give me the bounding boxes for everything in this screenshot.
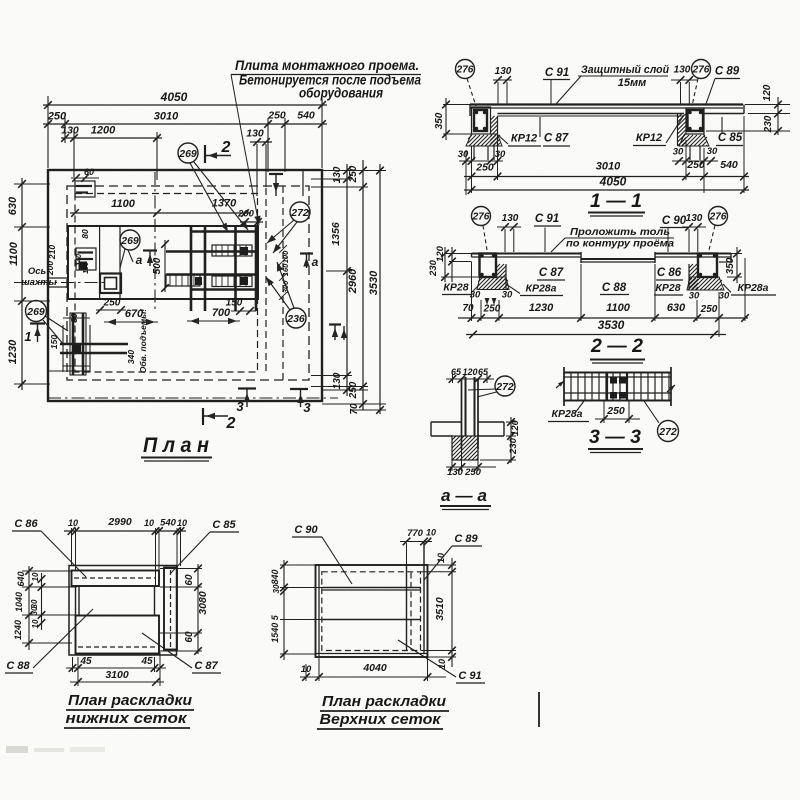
plan: dashed opening contour A [67,186,309,380]
plan callout circle 269 left [26,301,47,322]
lower mesh plan: mesh C85 right strip [164,568,177,650]
plan dim: 200 inner [240,221,263,223]
plan: shaft axis dash-dot horizontal [14,282,108,284]
section 1-1: slab top chords [470,103,743,105]
lower mesh plan: opening slot [72,585,160,587]
plan right extension lines [322,170,386,172]
upper mesh plan: right dim chain 10/3510/10 [451,558,453,667]
section 1-1: dim 4050 [464,189,749,191]
plan dim: 700 [187,320,240,322]
section 2-2: hatched base under right column [687,277,724,290]
section 1-1: hatch left of right column [678,114,682,118]
section 2-2: dim 130 right [682,226,706,228]
section 1-1: dims 30 right [672,160,718,162]
section 2-2: dim 3530 [466,334,726,336]
section a-a: dim 120/230 right [506,421,516,423]
section a-a: bottom dims 130/250 [446,466,496,468]
plan dim chain left: 630 / 1100 / 1230 [21,178,23,390]
lower mesh plan: outer rectangle [69,566,177,656]
section 1-1: dim 130 right [671,79,697,81]
plan section mark a right-mid [300,252,313,254]
section 1-1: dim 120/230 right [745,104,790,106]
plan dim chain right: 130 / 1356 / 130 [346,164,348,396]
plan dim chain right: 3530 [379,164,381,414]
upper mesh plan: bottom dim 10/4040 [300,676,446,678]
section 1-1: dims 30 left [459,160,503,162]
section 2-2: dim 350 right [721,253,742,255]
plan dim: 250 / 3010 / 250 / 540 [64,118,66,143]
plan section marks 3 top [269,173,283,175]
section 1-1: callout circle 276 left [456,60,475,79]
lower mesh plan: bottom dims 45/45 and 3100 [66,667,166,669]
plan dim: 1100 / 1370 inner [70,212,251,214]
section a-a: hatched base [452,436,478,460]
plan dim: 130 / 1200 [73,132,75,177]
section 1-1: hatched base under right column [679,134,709,146]
plan: dashed opening contour B [75,194,258,373]
section 1-1: hatch right of left column [491,116,495,120]
plan: outer wall rectangle [48,170,322,401]
plan: mesh ladder detail 1 [212,245,252,256]
plan dim: 500 vertical inner [164,240,166,292]
lower mesh plan: left dim chains [28,566,30,650]
section 3-3: anchor squares [610,377,617,384]
plan callout circle 272 [290,202,310,222]
plan section mark 1 left [30,322,45,324]
section 2-2: slab right segment [655,253,731,255]
plan: thick rebar verticals group 2 [234,227,237,311]
section 1-1: slab right overhang bottom [704,113,744,115]
section 1-1: dim 350 left [443,104,470,106]
section 3-3: left break arrows [556,381,564,388]
plan section mark 2 bottom [202,408,204,425]
plan dim: 150 [231,310,256,312]
plan: dim 60 over top-left detail [71,177,99,179]
plan callout circle 269 top [178,143,198,163]
section 2-2: slab left segment [472,253,582,255]
plan dim: 130 right small [250,141,272,143]
section 2-2: left column rebar cage [480,254,497,278]
section 2-2: dim 120/230 left [446,253,472,255]
section 2-2: hatch left of right column [689,264,693,268]
section a-a: slab lines [431,421,462,423]
section 1-1: right column with rebar cage [686,108,704,134]
plan: centre dash-dot vertical axis [154,172,156,312]
faint scan ghosts bottom left [6,746,28,753]
upper mesh plan: outer rectangle [316,565,428,657]
paper noise overlay [0,0,1,1]
plan section marks 3 bottom [238,387,256,389]
plan section mark 2 top [204,145,206,163]
plan section mark 1 right-low [329,323,341,325]
plan dim: overall 4050 [47,96,49,168]
section 2-2: slab middle segment C88 [580,252,582,263]
section 1-1: dim 130 left [493,79,512,81]
upper mesh plan: opening slot lines [323,587,422,589]
lower mesh plan: top dim line 10/2990/10/540/10 [64,530,186,532]
section 2-2: dim 130 left [497,226,521,228]
plan dim chain right: 250 / 2960 / 250 / 70 [362,160,364,410]
plan: small rebar detail top-left [75,181,95,197]
plan dim: 250 inner left [96,309,126,311]
section 2-2: callout circle 276 left [472,207,491,226]
section 1-1: dim line 3010/250/540 [464,176,749,178]
plan: lower-left rebar cage [72,313,75,375]
plan: mesh ladder detail 3 [212,276,252,287]
section 3-3: mesh band [564,372,671,374]
plan section mark a centre [143,249,157,251]
section a-a: callout circle 272 [495,376,515,396]
section a-a: wall verticals [461,379,463,449]
plan: anchor plate squares [195,277,202,285]
stray scan mark vertical line [538,692,540,727]
plan callout circle 269 centre [120,230,140,250]
lower mesh plan: mesh C86 top band [72,571,160,587]
lower mesh plan: right dim chain 60/3080/60 [197,564,199,654]
plan: thick rebar verticals group 1 [190,227,193,311]
section 1-1: callout circle 276 right [692,60,711,79]
plan: mesh ladder detail 2 [166,275,200,286]
plan callout circle 236 [286,308,306,328]
upper mesh plan: right strip C89 [406,566,408,651]
plan: central opening band [68,226,258,299]
plan dim: 670 [104,321,158,323]
section 3-3: callout circle 272 [658,421,679,442]
section 2-2: bottom dim chain [458,317,748,319]
section 1-1: hatched base under left column [466,134,502,146]
plan: bottom dash-dot line [48,397,338,399]
plan: dashed vertical right strip [282,186,284,380]
upper mesh plan: inner dashed contour [322,572,421,651]
plan: small rebar detail left-middle [76,248,96,270]
lower mesh plan: mesh C88 band [76,616,160,654]
section 2-2: hatch right of left column [496,264,500,268]
section 3-3: dim 250 [595,418,640,420]
section 2-2: right column rebar cage [698,254,717,278]
section 1-1: left column with rebar cage [472,107,491,134]
section a-a: top dim 65/120/65 [446,378,494,380]
upper mesh plan: top dim 770/10 [400,541,432,543]
plan: thick rebar chords [190,230,258,233]
plan: embedded square with inner square [100,274,121,294]
upper mesh plan: left dim chain 840/30/1540 [283,560,285,660]
leader from note to plan opening strip [231,75,259,226]
section 2-2: hatched base under left column [477,277,509,290]
lower mesh plan: left edge strip [76,586,80,616]
section 2-2: callout circle 276 right [709,207,728,226]
